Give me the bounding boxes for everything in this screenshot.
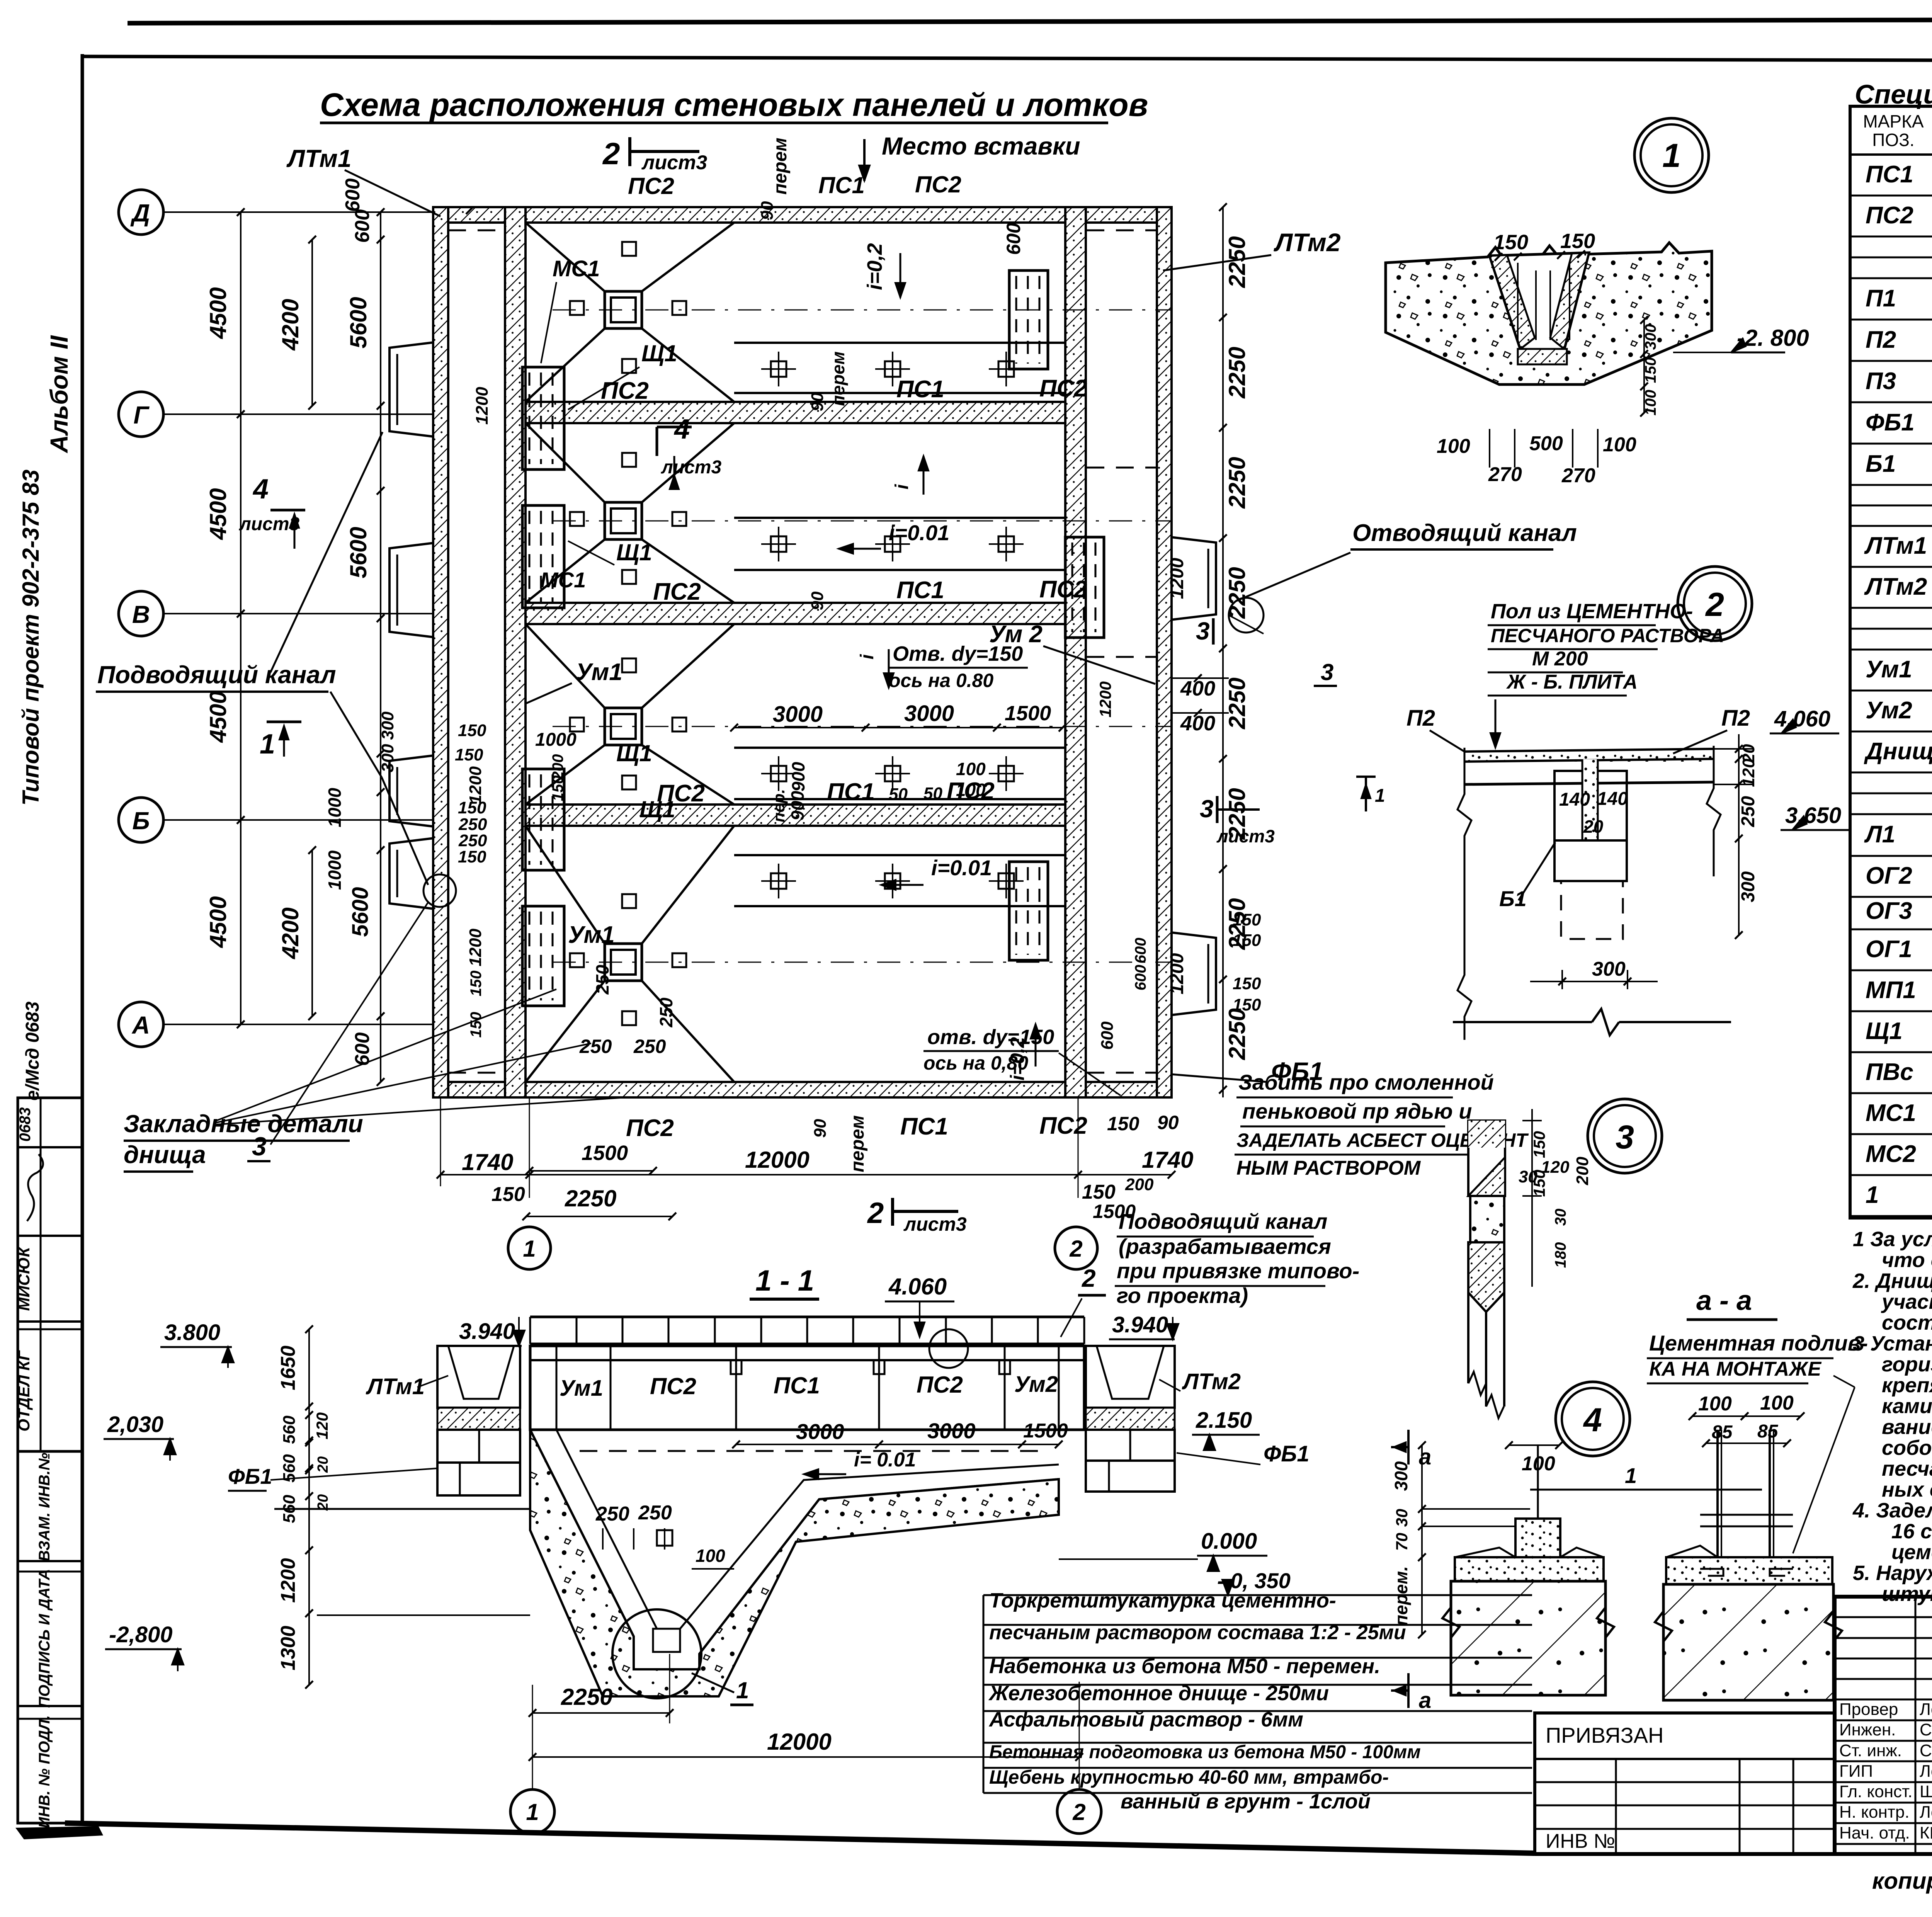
svg-text:150: 150 bbox=[492, 1183, 525, 1206]
scan blob bottom left bbox=[15, 1826, 103, 1839]
svg-text:2: 2 bbox=[1705, 586, 1724, 623]
svg-text:200: 200 bbox=[1125, 1175, 1154, 1194]
svg-text:3: 3 bbox=[1196, 617, 1210, 645]
svg-text:Н. контр.: Н. контр. bbox=[1839, 1803, 1910, 1822]
svg-text:Б: Б bbox=[132, 807, 150, 835]
svg-text:-2. 800: -2. 800 bbox=[1737, 325, 1809, 351]
svg-text:100: 100 bbox=[1603, 434, 1636, 456]
dim 3000 3000 1500 inside compartment 3 bbox=[734, 727, 1063, 728]
pit concrete fill bbox=[530, 1430, 1059, 1696]
svg-text:1: 1 bbox=[1375, 786, 1385, 806]
svg-text:Ст. инж.: Ст. инж. bbox=[1839, 1741, 1902, 1760]
left dimension line 4200 chain bbox=[311, 240, 313, 406]
spec table row 25 МП1 bbox=[1850, 1010, 1932, 1012]
svg-text:120: 120 bbox=[313, 1412, 331, 1439]
svg-text:Гл. конст.: Гл. конст. bbox=[1839, 1782, 1913, 1801]
svg-text:ОТДЕЛ КГ: ОТДЕЛ КГ bbox=[15, 1350, 33, 1432]
plan outer wall left (hatched band) bbox=[433, 207, 448, 1097]
detail 1: channel inner walls hatch bbox=[1490, 255, 1535, 349]
svg-text:лист3: лист3 bbox=[661, 457, 722, 478]
leader lines from supply channel label bbox=[330, 692, 382, 777]
svg-text:ЛТм2: ЛТм2 bbox=[1274, 228, 1341, 257]
svg-text:600: 600 bbox=[1098, 1021, 1117, 1050]
svg-text:2: 2 bbox=[867, 1197, 884, 1230]
svg-text:ПС2: ПС2 bbox=[650, 1373, 696, 1399]
svg-text:1200: 1200 bbox=[466, 929, 485, 966]
svg-text:1200: 1200 bbox=[473, 387, 492, 425]
small detail circle on walkway bbox=[929, 1329, 968, 1368]
svg-text:Лоуцкер: Лоуцкер bbox=[1920, 1762, 1932, 1781]
svg-text:5600: 5600 bbox=[345, 527, 371, 578]
svg-text:85: 85 bbox=[1712, 1422, 1733, 1442]
svg-text:i: i bbox=[857, 654, 878, 660]
svg-text:4.060: 4.060 bbox=[1774, 706, 1830, 731]
svg-text:2250: 2250 bbox=[561, 1684, 612, 1710]
svg-text:90: 90 bbox=[808, 392, 827, 411]
shield plate Shch1 near wall B (left) bbox=[522, 769, 564, 870]
svg-text:1000: 1000 bbox=[325, 788, 345, 827]
svg-text:1500: 1500 bbox=[582, 1141, 628, 1165]
detail 3: wall joint drawing bbox=[1468, 1121, 1505, 1196]
svg-text:150: 150 bbox=[1233, 974, 1261, 993]
svg-text:1200: 1200 bbox=[277, 1558, 299, 1603]
svg-text:Щ1: Щ1 bbox=[639, 796, 675, 822]
outlet gate 1 right side bbox=[1171, 537, 1216, 620]
svg-text:1: 1 bbox=[523, 1236, 536, 1262]
svg-text:Нач. отд.: Нач. отд. bbox=[1839, 1823, 1910, 1842]
svg-text:собом в соответствии с „Реко: собом в соответствии с „Рекомендациями п… bbox=[1882, 1436, 1932, 1459]
detail 2: right dim chain 20 120 250 300 bbox=[1714, 748, 1754, 750]
svg-text:150: 150 bbox=[1233, 995, 1261, 1014]
spec table row 18 Днище bbox=[1850, 772, 1932, 774]
detail a-a: footing block bbox=[1663, 1584, 1833, 1700]
svg-text:300: 300 bbox=[1592, 958, 1626, 980]
dims 3000 3000 1500 in section bbox=[736, 1444, 1059, 1445]
svg-text:250: 250 bbox=[633, 1036, 666, 1057]
svg-text:3 Установка стеновых панеле: 3 Установка стеновых панелей производитс… bbox=[1853, 1332, 1932, 1355]
svg-text:Пол из ЦЕМЕНТНО-: Пол из ЦЕМЕНТНО- bbox=[1491, 600, 1693, 623]
svg-text:песчаным раствором стыков: песчаным раствором стыков шпоночного тип… bbox=[1882, 1457, 1932, 1480]
channel lines compartment 4 bbox=[734, 854, 1065, 856]
svg-text:5600: 5600 bbox=[348, 887, 373, 937]
legend table Torkret (shotcrete layers) bbox=[983, 1594, 1532, 1596]
svg-text:4200: 4200 bbox=[277, 907, 303, 959]
svg-text:0.000: 0.000 bbox=[1201, 1529, 1257, 1554]
svg-text:ПС1: ПС1 bbox=[896, 577, 944, 604]
svg-text:i: i bbox=[892, 484, 912, 490]
svg-text:250: 250 bbox=[592, 964, 612, 995]
spec table row 7 П3 bbox=[1850, 401, 1932, 403]
svg-text:3.800: 3.800 bbox=[164, 1320, 220, 1345]
svg-text:ПЕСЧАНОГО РАСТВОРА: ПЕСЧАНОГО РАСТВОРА bbox=[1491, 625, 1724, 646]
svg-text:2. Днище и внутренние (к вод: 2. Днище и внутренние (к воде) поверхнос… bbox=[1852, 1269, 1932, 1293]
svg-text:200: 200 bbox=[1573, 1157, 1592, 1186]
svg-text:150: 150 bbox=[1493, 231, 1528, 254]
svg-text:1 За условную отметку 0,000: 1 За условную отметку 0,000 принят верх … bbox=[1853, 1228, 1932, 1251]
svg-text:3: 3 bbox=[252, 1132, 267, 1161]
svg-text:2250: 2250 bbox=[1224, 457, 1250, 509]
svg-text:ПС2: ПС2 bbox=[628, 173, 674, 199]
axis line Д bbox=[163, 211, 433, 213]
svg-text:2.150: 2.150 bbox=[1196, 1408, 1252, 1433]
svg-text:3.940: 3.940 bbox=[1112, 1312, 1168, 1337]
svg-text:штукатурятся и затираются.: штукатурятся и затираются. bbox=[1882, 1582, 1932, 1606]
svg-text:400: 400 bbox=[1180, 677, 1215, 700]
spec table row 12 ЛТм1 bbox=[1850, 566, 1932, 568]
detail 2: beam outline lower bbox=[1554, 840, 1627, 881]
svg-text:1: 1 bbox=[1866, 1182, 1879, 1208]
svg-text:3000: 3000 bbox=[904, 701, 954, 726]
axis circle Д bbox=[119, 190, 163, 235]
spec table row 10 empty bbox=[1850, 505, 1932, 507]
tank body of section bbox=[530, 1346, 1084, 1430]
svg-text:250: 250 bbox=[1738, 796, 1759, 827]
svg-text:лист3: лист3 bbox=[641, 151, 707, 174]
svg-text:16 серии 3.900 -3. Вып.2 с ув: 16 серии 3.900 -3. Вып.2 с увеличением т… bbox=[1891, 1520, 1932, 1543]
insertion place arrow bbox=[863, 139, 866, 181]
right tray LTm2 of section bbox=[1086, 1346, 1175, 1408]
svg-text:4: 4 bbox=[673, 414, 690, 445]
detail 4: footing block with diagonal hatch bbox=[1451, 1581, 1605, 1695]
svg-text:400: 400 bbox=[1180, 712, 1215, 735]
svg-text:1300: 1300 bbox=[277, 1626, 299, 1670]
left dim chain of section bbox=[308, 1329, 310, 1685]
svg-text:ПС1: ПС1 bbox=[774, 1373, 820, 1398]
svg-text:ПС1: ПС1 bbox=[818, 172, 865, 198]
sidebar stamp table lower box bbox=[18, 1451, 82, 1823]
svg-text:150: 150 bbox=[1560, 230, 1595, 253]
left dimension line 5600/600 chain bbox=[380, 212, 381, 1082]
drawing frame bottom (left part, heavy scan line) bbox=[65, 1823, 1535, 1853]
spec table row 20 empty bbox=[1850, 813, 1932, 815]
svg-text:600: 600 bbox=[1003, 223, 1024, 255]
plan outer wall bottom (hatched band) bbox=[433, 1082, 1172, 1097]
svg-text:МИСЮК: МИСЮК bbox=[15, 1246, 33, 1311]
privyazan table bbox=[1535, 1713, 1835, 1854]
svg-text:НЫМ РАСТВОРОМ: НЫМ РАСТВОРОМ bbox=[1236, 1157, 1421, 1179]
svg-text:го проекта): го проекта) bbox=[1117, 1283, 1248, 1308]
svg-text:ПС1: ПС1 bbox=[896, 376, 944, 403]
svg-text:1: 1 bbox=[736, 1677, 749, 1703]
spec table row 1 ПС1 bbox=[1850, 195, 1932, 197]
plan internal cross wall at axis V bbox=[526, 603, 1065, 624]
FB1 blocks under left tray bbox=[437, 1430, 520, 1463]
svg-text:ных емкостных сооружениях “: ных емкостных сооружениях “ bbox=[1882, 1478, 1932, 1501]
detail a-a: dims 100 100 85 85 bbox=[1692, 1415, 1801, 1417]
spec table row 9 Б1 bbox=[1850, 484, 1932, 486]
hopper with X diagonals, compartment 1 bbox=[526, 223, 605, 291]
shield plate right wall middle bbox=[1065, 537, 1104, 638]
detail 4: long leader line 1 to a-a detail bbox=[1530, 1489, 1762, 1491]
svg-text:4500: 4500 bbox=[205, 488, 231, 540]
axis circle А bbox=[119, 1002, 163, 1047]
drawing frame top bbox=[82, 56, 1932, 62]
svg-text:ВЗАМ. ИНВ.№: ВЗАМ. ИНВ.№ bbox=[36, 1453, 53, 1561]
inlet gate 3 on supply channel bbox=[389, 755, 434, 827]
svg-text:4500: 4500 bbox=[205, 691, 231, 743]
svg-text:перем: перем bbox=[770, 138, 791, 195]
spec table row 13 ЛТм2 bbox=[1850, 607, 1932, 609]
svg-text:2: 2 bbox=[1072, 1799, 1085, 1825]
svg-text:Инжен.: Инжен. bbox=[1839, 1720, 1896, 1739]
svg-text:140: 140 bbox=[1559, 789, 1590, 810]
svg-text:900: 900 bbox=[788, 762, 808, 791]
svg-text:цементного раствора с 30 до: цементного раствора с 30 до 50мм. bbox=[1891, 1541, 1932, 1564]
svg-text:Шапиро: Шапиро bbox=[1920, 1782, 1932, 1801]
spec table row 14 empty bbox=[1850, 628, 1932, 630]
axis line А bbox=[163, 1024, 433, 1025]
svg-text:250: 250 bbox=[656, 997, 676, 1027]
svg-text:70: 70 bbox=[1393, 1533, 1411, 1551]
section a marker upper bbox=[1407, 1430, 1410, 1465]
svg-text:2250: 2250 bbox=[565, 1186, 616, 1211]
svg-text:Г: Г bbox=[133, 401, 150, 429]
svg-text:ПОЗ.: ПОЗ. bbox=[1872, 130, 1914, 150]
svg-text:днища: днища bbox=[124, 1141, 206, 1169]
spec table row 22 ОГ2 bbox=[1850, 896, 1932, 898]
svg-text:КА НА МОНТАЖЕ: КА НА МОНТАЖЕ bbox=[1649, 1358, 1821, 1380]
svg-text:300: 300 bbox=[378, 744, 397, 772]
svg-text:1: 1 bbox=[1625, 1463, 1637, 1488]
dim 2250 under pit bbox=[532, 1712, 670, 1714]
svg-text:ПС2: ПС2 bbox=[626, 1115, 674, 1141]
hopper with X diagonals, compartment 4 bbox=[526, 826, 605, 944]
svg-text:20: 20 bbox=[1583, 816, 1604, 837]
detail 2: floor slab lines with dotted screed bbox=[1464, 752, 1714, 762]
svg-text:3: 3 bbox=[1616, 1119, 1634, 1156]
svg-text:1: 1 bbox=[1662, 137, 1681, 174]
spec table row 3 empty bbox=[1850, 257, 1932, 259]
svg-text:Д: Д bbox=[130, 199, 150, 227]
channel lines compartment 2 bbox=[734, 517, 1065, 519]
svg-text:участков стен торкретируютс: участков стен торкретируются цементно- п… bbox=[1881, 1290, 1932, 1313]
svg-text:ФБ1: ФБ1 bbox=[1264, 1441, 1310, 1466]
pit slopes and bottom bbox=[530, 1430, 1059, 1669]
spec table row 17 Ум2 bbox=[1850, 731, 1932, 733]
svg-text:Ум2: Ум2 bbox=[1866, 697, 1912, 724]
detail 4: stub with dots bbox=[1515, 1519, 1560, 1557]
svg-text:180: 180 bbox=[1552, 1242, 1569, 1268]
svg-text:П2: П2 bbox=[1866, 327, 1896, 353]
svg-text:1200: 1200 bbox=[1167, 558, 1187, 599]
axis line Г bbox=[163, 413, 433, 415]
plan bottom axis circle 2 bbox=[1055, 1227, 1097, 1269]
svg-text:150: 150 bbox=[468, 971, 485, 997]
section axis circle 1 bbox=[510, 1789, 554, 1834]
inlet gate 1 on supply channel bbox=[389, 342, 434, 437]
svg-text:ОГ3: ОГ3 bbox=[1866, 898, 1912, 924]
detail a-a: tie plates bbox=[1700, 1514, 1793, 1516]
svg-text:300: 300 bbox=[378, 711, 397, 740]
FB1 blocks under right tray bbox=[1086, 1430, 1175, 1461]
svg-text:1650: 1650 bbox=[277, 1345, 299, 1390]
svg-text:Стронгин: Стронгин bbox=[1920, 1741, 1932, 1760]
svg-text:4.060: 4.060 bbox=[888, 1274, 947, 1300]
svg-text:-2,800: -2,800 bbox=[109, 1622, 172, 1647]
right dimension chain 2250 x8 bbox=[1222, 207, 1224, 1097]
svg-text:150: 150 bbox=[549, 776, 566, 801]
svg-text:140: 140 bbox=[1597, 789, 1628, 809]
svg-text:лист3: лист3 bbox=[903, 1213, 967, 1235]
svg-text:М 200: М 200 bbox=[1532, 648, 1588, 670]
svg-text:3000: 3000 bbox=[796, 1419, 844, 1444]
svg-text:900: 900 bbox=[787, 791, 808, 820]
sidebar stamp table upper box bbox=[18, 1098, 82, 1451]
svg-text:2250: 2250 bbox=[1224, 567, 1250, 619]
svg-text:150: 150 bbox=[458, 847, 486, 866]
svg-text:500: 500 bbox=[1529, 432, 1563, 455]
svg-text:МАРКА: МАРКА bbox=[1863, 111, 1923, 131]
svg-text:копировал: Хюппенен: копировал: Хюппенен bbox=[1872, 1868, 1932, 1894]
svg-text:300: 300 bbox=[1738, 871, 1759, 902]
svg-text:Отводящий канал: Отводящий канал bbox=[1352, 520, 1577, 546]
svg-text:1500: 1500 bbox=[1005, 702, 1051, 725]
svg-text:1740: 1740 bbox=[1142, 1147, 1193, 1173]
svg-text:30: 30 bbox=[1552, 1209, 1569, 1226]
svg-text:песчаным раствором состава 1: песчаным раствором состава 1:2 - 25ми bbox=[989, 1621, 1406, 1644]
svg-text:250: 250 bbox=[595, 1503, 629, 1525]
svg-text:0683: 0683 bbox=[17, 1107, 34, 1142]
plan internal cross wall at axis B bbox=[526, 805, 1065, 826]
detail 2: dashed projection below bbox=[1561, 881, 1623, 939]
svg-text:300: 300 bbox=[1391, 1461, 1411, 1491]
svg-text:5600: 5600 bbox=[345, 297, 371, 348]
svg-text:П2: П2 bbox=[1406, 706, 1435, 731]
svg-text:Типовой проект 902-2-375 83: Типовой проект 902-2-375 83 bbox=[18, 469, 44, 806]
svg-text:МС2: МС2 bbox=[1866, 1141, 1916, 1167]
svg-text:100: 100 bbox=[1437, 435, 1470, 458]
svg-text:П2: П2 bbox=[1721, 706, 1750, 731]
shield plate Shch1 below wall G (left) bbox=[522, 505, 564, 608]
svg-text:МС1: МС1 bbox=[1866, 1100, 1916, 1126]
dashed service lines in side trays bbox=[448, 230, 505, 231]
tank floor and pit of section bbox=[556, 1429, 1059, 1431]
svg-text:МС1: МС1 bbox=[553, 256, 600, 281]
svg-text:Лоуцкер: Лоуцкер bbox=[1920, 1803, 1932, 1822]
svg-text:Схема расположения стеновых: Схема расположения стеновых панелей и ло… bbox=[320, 87, 1148, 123]
svg-text:50: 50 bbox=[923, 784, 942, 803]
svg-text:отв. dy=150: отв. dy=150 bbox=[927, 1026, 1054, 1049]
detail 1 bottom dims 100 500 100 270 270 bbox=[1489, 429, 1490, 468]
detail 2: dim 300 below bbox=[1561, 970, 1563, 989]
svg-text:Щ1: Щ1 bbox=[616, 740, 652, 766]
svg-text:горизонтальных и вертикальны: горизонтальных и вертикальных осей. Межд… bbox=[1882, 1353, 1932, 1376]
svg-text:2250: 2250 bbox=[1224, 347, 1250, 398]
svg-text:150: 150 bbox=[1233, 931, 1261, 950]
detail a-a: two anchor bolts bbox=[1716, 1430, 1719, 1561]
detail circle on left wall lower bbox=[423, 874, 456, 907]
svg-text:2: 2 bbox=[1069, 1236, 1082, 1262]
svg-text:В: В bbox=[132, 600, 150, 628]
svg-text:Железобетонное днище: Железобетонное днище - 250ми bbox=[988, 1682, 1329, 1705]
section axis circle 2 bbox=[1057, 1789, 1101, 1834]
svg-text:150: 150 bbox=[1233, 910, 1261, 929]
svg-text:ось на 0.80: ось на 0.80 bbox=[889, 670, 993, 691]
svg-text:КРАСАВИН: КРАСАВИН bbox=[1920, 1823, 1932, 1842]
svg-text:а: а bbox=[1419, 1444, 1431, 1470]
detail 2: direction symbol T1 bbox=[1356, 776, 1376, 778]
ground line left of tank bbox=[274, 1508, 530, 1510]
svg-text:Щ1: Щ1 bbox=[641, 340, 677, 366]
spec table row 15 empty bbox=[1850, 649, 1932, 651]
svg-text:1000: 1000 bbox=[325, 850, 345, 890]
svg-text:ПС2: ПС2 bbox=[917, 1372, 963, 1398]
svg-text:90: 90 bbox=[1157, 1112, 1179, 1133]
svg-text:ОГ1: ОГ1 bbox=[1866, 936, 1912, 963]
svg-text:4. Заделка стеновых панелей: 4. Заделка стеновых панелей в паз днища … bbox=[1852, 1499, 1932, 1522]
svg-text:Стригина: Стригина bbox=[1920, 1720, 1932, 1739]
plan bottom axis circle 1 bbox=[508, 1227, 551, 1269]
detail circle 3 (double ring) bbox=[1588, 1099, 1662, 1173]
svg-text:150: 150 bbox=[1107, 1113, 1139, 1135]
svg-text:600: 600 bbox=[1132, 938, 1149, 964]
title block outer frame bbox=[1835, 1597, 1932, 1854]
spec table row 8 ФБ1 bbox=[1850, 443, 1932, 445]
svg-text:85: 85 bbox=[1757, 1421, 1779, 1442]
svg-text:Провер: Провер bbox=[1839, 1700, 1898, 1719]
detail 4: top slab band bbox=[1455, 1557, 1604, 1581]
svg-text:3000: 3000 bbox=[773, 702, 823, 727]
pit bottom small box bbox=[653, 1629, 680, 1652]
svg-text:Б1: Б1 bbox=[1866, 451, 1896, 477]
detail 4: left dim chain 300 30 70 perem bbox=[1421, 1445, 1423, 1635]
svg-text:Набетонка из бетона М50 - п: Набетонка из бетона М50 - перемен. bbox=[989, 1655, 1380, 1678]
svg-text:90: 90 bbox=[811, 1119, 830, 1138]
title block left grid bbox=[1835, 1616, 1932, 1618]
svg-text:1: 1 bbox=[526, 1799, 539, 1825]
svg-text:ПС2: ПС2 bbox=[1039, 1112, 1087, 1139]
spec table row 5 П1 bbox=[1850, 319, 1932, 321]
svg-text:ЛТм2: ЛТм2 bbox=[1182, 1369, 1241, 1394]
inlet gate 4 on supply channel bbox=[389, 838, 434, 909]
detail circle 4 (double ring) bbox=[1556, 1382, 1630, 1456]
svg-text:4: 4 bbox=[252, 474, 269, 505]
svg-text:20: 20 bbox=[315, 1456, 331, 1473]
svg-text:при привязке типово-: при привязке типово- bbox=[1117, 1259, 1359, 1283]
svg-text:30: 30 bbox=[1519, 1167, 1537, 1186]
spec table row 11 empty bbox=[1850, 525, 1932, 527]
svg-text:что соответствует абсолютной: что соответствует абсолютной отметке bbox=[1882, 1249, 1932, 1272]
svg-text:Подводящий канал: Подводящий канал bbox=[97, 661, 336, 689]
svg-text:ками по узлам 2и3 серии 3.900-: ками по узлам 2и3 серии 3.900-3 вып.2 с … bbox=[1882, 1395, 1932, 1418]
svg-text:ПРИВЯЗАН: ПРИВЯЗАН bbox=[1546, 1723, 1663, 1747]
axis circle В bbox=[119, 591, 163, 636]
svg-text:Ум1: Ум1 bbox=[576, 659, 622, 685]
detail a-a: top slab with anchors bbox=[1666, 1557, 1832, 1584]
svg-text:ОГ2: ОГ2 bbox=[1866, 862, 1912, 889]
svg-text:90: 90 bbox=[758, 201, 777, 220]
plan bottom dimension line 1740-12000-1740 bbox=[440, 1174, 1172, 1175]
svg-text:i=0.01: i=0.01 bbox=[931, 856, 992, 880]
spec table header row bbox=[1850, 153, 1932, 156]
svg-text:Ум1: Ум1 bbox=[1866, 656, 1912, 683]
svg-text:Альбом II: Альбом II bbox=[45, 335, 73, 454]
svg-text:250: 250 bbox=[579, 1036, 612, 1057]
plan inner wall right vertical (hatched) bbox=[1065, 207, 1086, 1097]
svg-text:2250: 2250 bbox=[1224, 1008, 1250, 1060]
spec table row 29 МС2 bbox=[1850, 1174, 1932, 1176]
detail 4: column stub and footing bbox=[1537, 1445, 1539, 1519]
svg-text:Ум2: Ум2 bbox=[1014, 1372, 1058, 1397]
svg-text:МС1: МС1 bbox=[540, 568, 586, 592]
svg-text:120: 120 bbox=[1739, 759, 1758, 787]
svg-text:ИНВ. № ПОДЛ.: ИНВ. № ПОДЛ. bbox=[36, 1715, 53, 1829]
svg-text:А: А bbox=[131, 1011, 150, 1039]
svg-text:i=0.01: i=0.01 bbox=[889, 520, 949, 545]
svg-text:Щебень крупностью 40-60 мм,: Щебень крупностью 40-60 мм, втрамбо- bbox=[989, 1766, 1389, 1788]
extension verticals to bottom dim bbox=[440, 1097, 441, 1186]
svg-text:100: 100 bbox=[696, 1546, 725, 1566]
